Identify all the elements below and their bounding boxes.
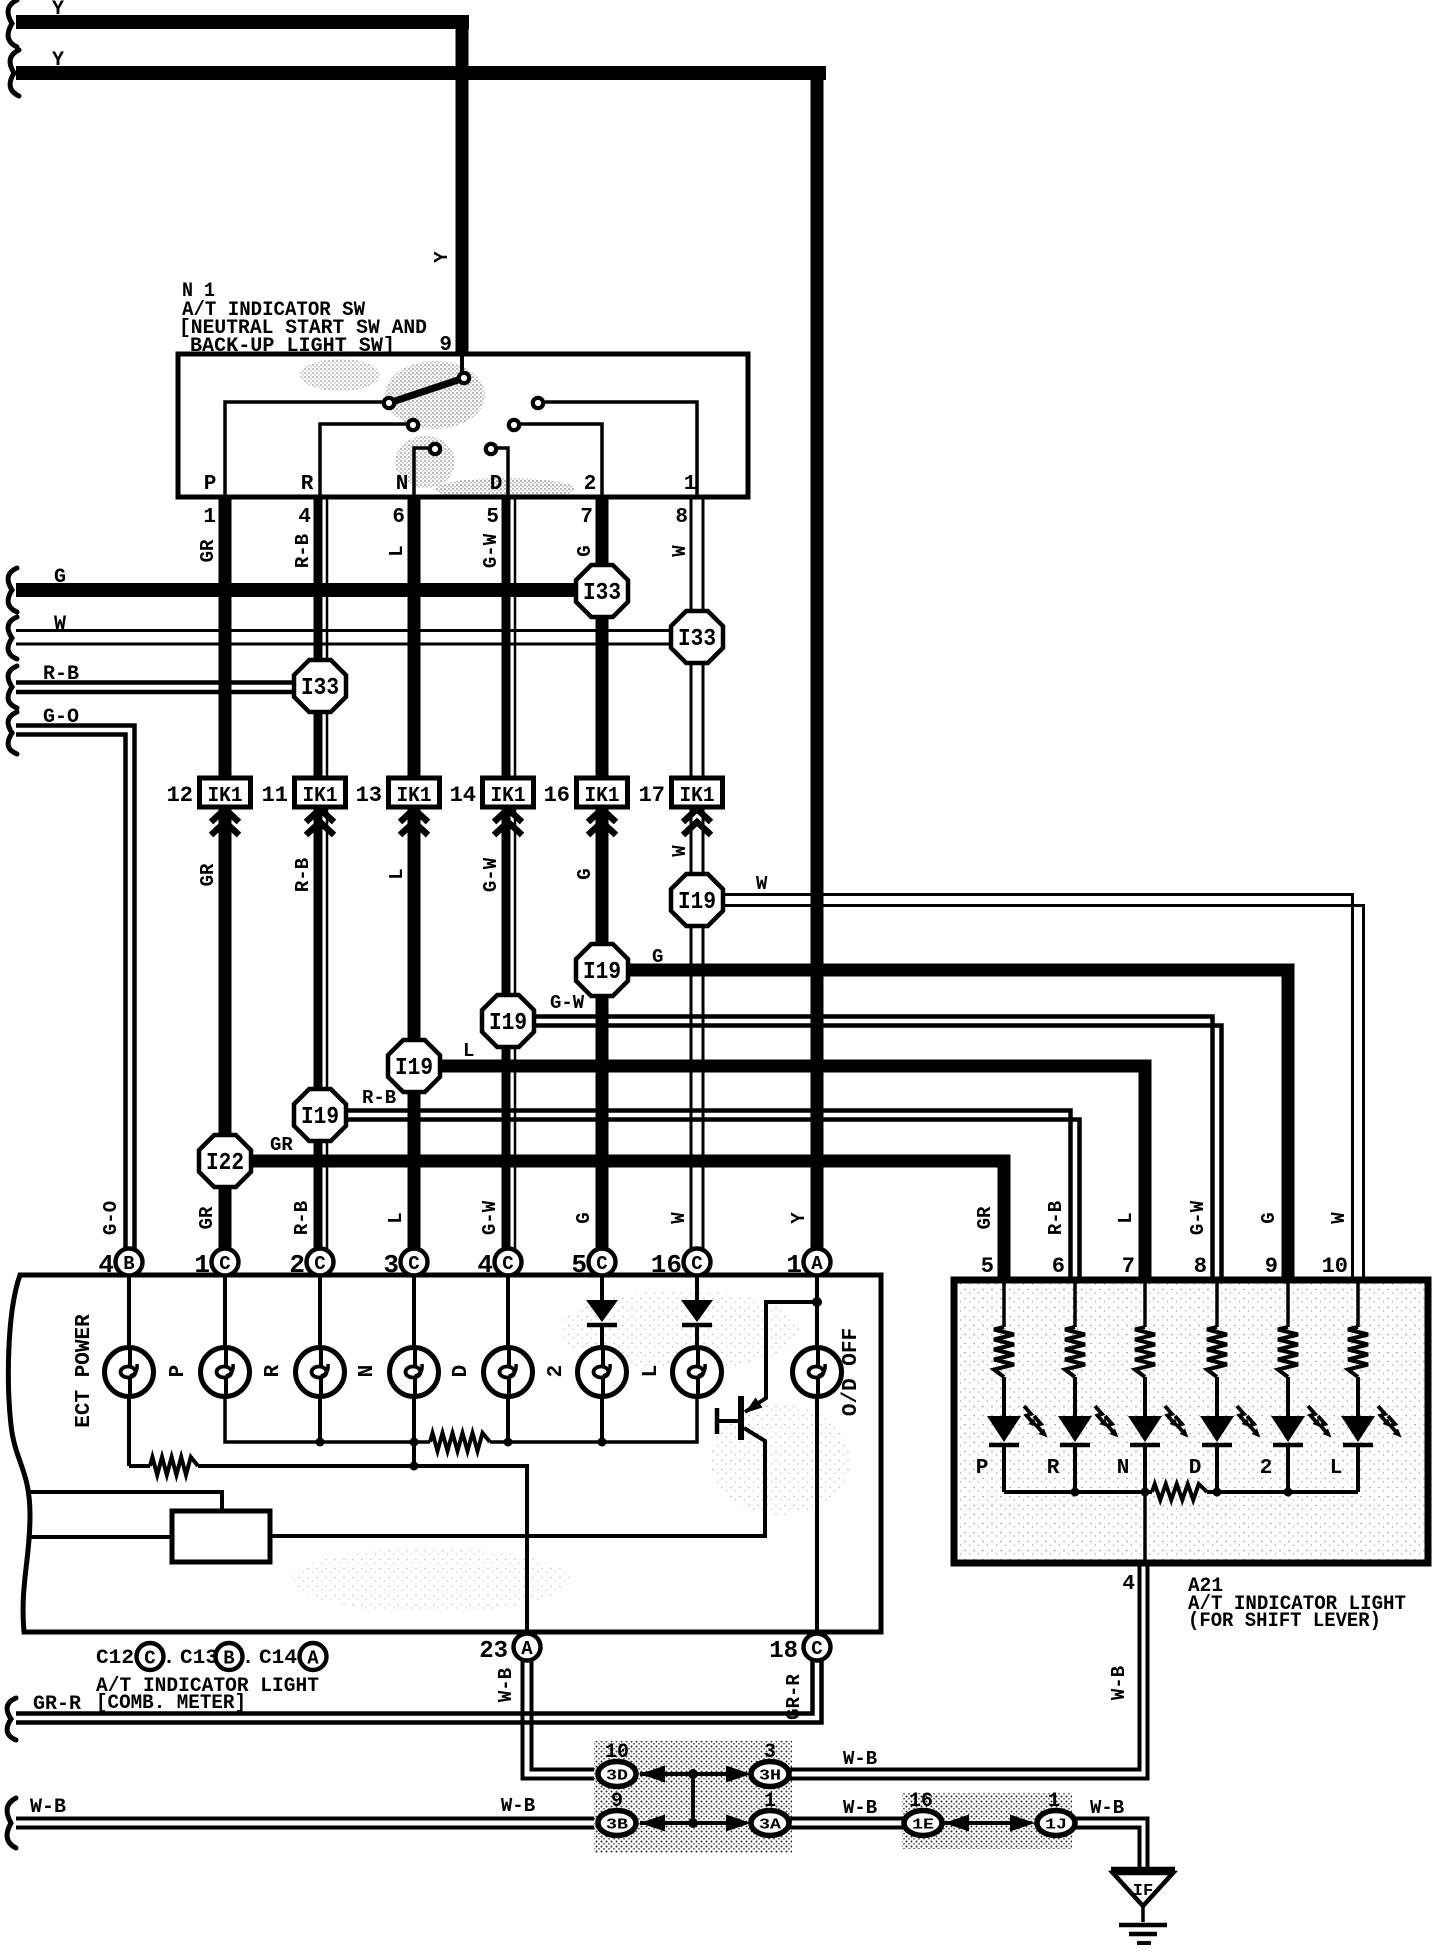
svg-text:ECT POWER: ECT POWER — [73, 1314, 96, 1428]
resistor — [1207, 1327, 1227, 1377]
A21 internal wire col 4 — [1215, 1280, 1219, 1327]
smudge noise — [300, 359, 575, 500]
svg-text:B: B — [123, 1253, 134, 1275]
svg-text:16: 16 — [651, 1250, 682, 1280]
svg-text:I33: I33 — [583, 580, 621, 607]
svg-text:11: 11 — [262, 783, 288, 808]
connector 3H — [751, 1762, 789, 1787]
svg-text:G: G — [54, 566, 66, 589]
lamp N — [390, 1348, 439, 1397]
wire G-O bus inner line — [16, 735, 126, 1252]
svg-text:10: 10 — [605, 1741, 629, 1764]
wire G-O bus outer line — [16, 726, 135, 1252]
gauge block — [172, 1511, 270, 1562]
lamp O/D OFF — [793, 1348, 842, 1397]
svg-text:L: L — [1115, 1212, 1137, 1223]
svg-text:IK1: IK1 — [491, 785, 526, 808]
connector IK1 pin 11 — [295, 778, 346, 808]
svg-text:W-B: W-B — [30, 1796, 66, 1819]
svg-text:W-B: W-B — [495, 1668, 517, 1702]
svg-text:L: L — [1330, 1457, 1343, 1480]
svg-text:R: R — [262, 1364, 285, 1377]
A21 indicator body — [954, 1280, 1428, 1563]
A21 wire to pin 4 — [1143, 1492, 1147, 1563]
switch contact lead R — [320, 424, 406, 497]
switch contact pivot — [459, 373, 469, 383]
svg-text:C14: C14 — [259, 1647, 297, 1670]
wire 3B-3A — [640, 1821, 727, 1825]
svg-text:3H: 3H — [759, 1768, 781, 1785]
svg-text:R-B: R-B — [362, 1087, 396, 1109]
svg-text:N: N — [356, 1365, 379, 1378]
wire W column right line — [702, 497, 705, 1251]
wire 1E-1J — [944, 1821, 1011, 1825]
junction — [688, 1818, 698, 1828]
svg-text:L: L — [385, 1212, 407, 1223]
svg-text:16: 16 — [909, 1790, 933, 1813]
ground IF — [1111, 1869, 1175, 1943]
comb meter pin 1(A) — [804, 1249, 831, 1276]
comb meter pin 1(C) — [212, 1249, 239, 1276]
lamp L — [673, 1348, 722, 1397]
svg-text:5: 5 — [981, 1254, 994, 1279]
wire W-B 3H to A21 inner — [789, 1563, 1140, 1770]
svg-text:N: N — [396, 473, 409, 496]
svg-text:13: 13 — [356, 783, 382, 808]
diode — [681, 1300, 713, 1325]
wire R-B column left line — [314, 497, 323, 1251]
svg-text:9: 9 — [439, 334, 452, 357]
svg-text:I19: I19 — [678, 889, 716, 916]
switch contact lead P — [225, 402, 382, 497]
wire L column (N) — [408, 497, 421, 1251]
A21 internal wire col 1 — [1002, 1280, 1006, 1327]
svg-text:R-B: R-B — [43, 663, 79, 686]
wire pin to diode — [600, 1275, 604, 1300]
svg-text:L: L — [386, 545, 408, 556]
junction — [410, 1438, 419, 1447]
connector I33 on W — [671, 611, 723, 663]
wire G run to A21 pin 9 — [628, 970, 1288, 1283]
svg-text:G-W: G-W — [480, 533, 502, 568]
wire pin to lamp — [506, 1275, 510, 1348]
connector I33 on G — [576, 565, 628, 617]
svg-text:W: W — [669, 545, 691, 557]
junction — [504, 1438, 513, 1447]
svg-text:C: C — [691, 1253, 702, 1275]
svg-text:W: W — [54, 613, 66, 636]
transistor Q (O/D) — [717, 1302, 817, 1440]
svg-text:O/D OFF: O/D OFF — [840, 1328, 863, 1416]
svg-text:5: 5 — [571, 1250, 587, 1280]
svg-text:IK1: IK1 — [397, 785, 432, 808]
svg-text:1: 1 — [203, 506, 216, 529]
wire to gauge block left — [28, 1535, 172, 1539]
junction — [410, 1462, 419, 1471]
junction block J/B — [594, 1741, 792, 1853]
wire O/D lamp to pin 18(C) — [815, 1396, 819, 1634]
connector code A — [300, 1643, 327, 1670]
svg-text:C12: C12 — [96, 1647, 134, 1670]
lamp bus left — [225, 1396, 430, 1442]
continuation brace G-O bus — [8, 712, 17, 754]
svg-text:G-W: G-W — [480, 857, 502, 892]
A21 cathode bus left — [1004, 1490, 1152, 1494]
connector I19 on R-B — [294, 1089, 346, 1141]
comb meter pin 23(A) — [514, 1634, 541, 1661]
resistor — [1065, 1327, 1085, 1377]
wire W bus upper line — [16, 629, 697, 632]
svg-text:I22: I22 — [206, 1150, 244, 1177]
svg-text:G-W: G-W — [550, 992, 585, 1014]
svg-text:G-W: G-W — [1187, 1200, 1209, 1235]
wire G column (2) — [596, 497, 609, 1251]
junction — [1213, 1488, 1222, 1497]
svg-text:G: G — [574, 868, 596, 879]
svg-text:C: C — [314, 1253, 325, 1275]
svg-text:I33: I33 — [301, 675, 339, 702]
A21 internal wire col 6 — [1356, 1280, 1360, 1327]
LED D — [1200, 1406, 1261, 1445]
svg-text:GR: GR — [197, 539, 219, 562]
svg-text:Y: Y — [788, 1212, 810, 1224]
A21 internal wire col 5 — [1286, 1280, 1290, 1327]
continuation brace Y bus 1 — [8, 0, 17, 47]
connector I22 on GR — [199, 1135, 251, 1187]
svg-text:C13: C13 — [180, 1647, 218, 1670]
junction — [316, 1438, 325, 1447]
svg-text:W-B: W-B — [843, 1748, 877, 1770]
svg-text:P: P — [204, 473, 217, 496]
resistor — [150, 1457, 198, 1475]
svg-text:GR-R: GR-R — [33, 1693, 81, 1716]
wire W-B 23A outer — [523, 1658, 599, 1779]
wire W run inner line — [723, 895, 1353, 1284]
connector IK1 pin 13 — [389, 778, 440, 808]
lamp R — [296, 1348, 345, 1397]
wire diode to lamp — [600, 1327, 604, 1348]
svg-text:R: R — [1047, 1457, 1060, 1480]
svg-text:6: 6 — [392, 506, 405, 529]
wire 1J-ground inner — [1075, 1828, 1140, 1871]
wire W bus lower line — [16, 643, 697, 646]
svg-text:G-O: G-O — [100, 1201, 122, 1235]
svg-text:A: A — [521, 1638, 533, 1660]
svg-text:16: 16 — [544, 783, 570, 808]
svg-text:3B: 3B — [606, 1817, 628, 1834]
resistor — [1348, 1327, 1368, 1377]
wire pin to lamp — [127, 1275, 131, 1348]
svg-text:GR: GR — [974, 1206, 996, 1229]
svg-text:2: 2 — [584, 473, 597, 496]
wire to pin 23(A) — [198, 1466, 527, 1634]
connector IK1 pin 16 — [577, 778, 628, 808]
svg-text:C: C — [144, 1648, 155, 1670]
svg-text:1: 1 — [684, 473, 697, 496]
wire G-W column right line — [514, 497, 517, 1251]
comb meter body — [8, 1275, 881, 1632]
svg-text:W: W — [669, 845, 691, 857]
wire Y drop to comb meter pin 1(A) — [811, 66, 824, 1251]
wire Y drop to switch pin 9 — [456, 15, 469, 357]
svg-text:A: A — [307, 1648, 319, 1670]
svg-text:W-B: W-B — [1090, 1797, 1124, 1819]
svg-text:Y: Y — [52, 0, 64, 21]
svg-text:14: 14 — [450, 783, 476, 808]
switch contact lead 1(L) — [545, 402, 697, 497]
svg-text:G: G — [652, 946, 663, 968]
svg-text:4: 4 — [477, 1250, 493, 1280]
svg-text:1: 1 — [194, 1250, 210, 1280]
svg-text:9: 9 — [1265, 1254, 1278, 1279]
svg-text:I19: I19 — [489, 1010, 527, 1037]
connector arrows under IK1-17 — [683, 809, 711, 822]
svg-text:P: P — [976, 1457, 989, 1480]
wire 3A-1E upper — [789, 1817, 904, 1821]
wire R-B run inner line — [346, 1111, 1071, 1284]
wire 3D-3H — [640, 1772, 727, 1776]
svg-text:L: L — [386, 868, 408, 879]
LED N — [1128, 1406, 1189, 1445]
svg-text:9: 9 — [611, 1790, 623, 1813]
wire pin to diode — [695, 1275, 699, 1300]
svg-text:GR: GR — [196, 1206, 218, 1229]
svg-text:7: 7 — [1122, 1254, 1135, 1279]
svg-text:4: 4 — [98, 1250, 114, 1280]
A21 internal wire col 2 — [1073, 1280, 1077, 1327]
svg-text:4: 4 — [298, 506, 311, 529]
svg-text:D: D — [450, 1365, 473, 1378]
wire Y bus 1 (horizontal) — [16, 15, 469, 29]
svg-text:G: G — [574, 545, 596, 556]
svg-text:7: 7 — [580, 506, 593, 529]
svg-text:C: C — [596, 1253, 607, 1275]
comb meter pin 5(C) — [589, 1249, 616, 1276]
svg-text:W-B: W-B — [501, 1795, 535, 1817]
svg-text:GR: GR — [270, 1134, 293, 1156]
LED P — [987, 1406, 1048, 1445]
wire pin to lamp — [412, 1275, 416, 1348]
svg-text:G: G — [573, 1212, 595, 1223]
junction — [688, 1769, 698, 1779]
connector I19 on W — [671, 874, 723, 926]
connector arrows under IK1-14 — [494, 809, 522, 822]
resistor horizontal — [1152, 1484, 1207, 1500]
svg-text:10: 10 — [1322, 1254, 1348, 1279]
connector 3A — [751, 1811, 789, 1836]
connector I33 on R-B — [294, 660, 346, 712]
switch contact P — [384, 398, 394, 408]
wire W run outer line — [723, 906, 1364, 1284]
svg-text:C: C — [408, 1253, 419, 1275]
connector IK1 pin 14 — [483, 778, 534, 808]
svg-text:R-B: R-B — [292, 858, 314, 892]
svg-text:6: 6 — [1052, 1254, 1065, 1279]
svg-text:3A: 3A — [759, 1817, 781, 1834]
wire G-W column left line — [502, 497, 511, 1251]
svg-text:8: 8 — [1194, 1254, 1207, 1279]
comb meter pin 18(C) — [804, 1634, 831, 1661]
svg-text:L: L — [640, 1365, 663, 1378]
wire L run to A21 pin 7 — [440, 1066, 1145, 1283]
wire pin to lamp — [318, 1275, 322, 1348]
junction — [1141, 1488, 1150, 1497]
svg-text:W-B: W-B — [843, 1797, 877, 1819]
svg-text:12: 12 — [167, 783, 193, 808]
svg-text:IK1: IK1 — [208, 785, 243, 808]
svg-text:3D: 3D — [606, 1768, 628, 1785]
comb meter pin 4(B) — [116, 1249, 143, 1276]
wire W column left line — [690, 497, 693, 1251]
wire 1J-ground outer — [1075, 1819, 1148, 1871]
wire transistor collector — [270, 1428, 765, 1536]
LED 2 — [1271, 1406, 1332, 1445]
svg-text:5: 5 — [486, 506, 499, 529]
wire W-B bus upper — [16, 1817, 598, 1821]
switch arm — [392, 378, 464, 402]
svg-text:3: 3 — [764, 1741, 776, 1764]
svg-text:G-O: G-O — [43, 706, 79, 729]
svg-text:8: 8 — [675, 506, 688, 529]
LED R — [1058, 1406, 1119, 1445]
svg-text:R-B: R-B — [1045, 1201, 1067, 1235]
A21 cathode bus right — [1207, 1490, 1358, 1494]
lamp ECT POWER — [105, 1348, 154, 1397]
svg-text:23: 23 — [479, 1638, 508, 1665]
wire pin to lamp — [815, 1275, 819, 1348]
wire switch common from pin 9 — [460, 354, 464, 378]
resistor — [430, 1433, 490, 1451]
svg-text:B: B — [223, 1648, 234, 1670]
svg-text:N: N — [1117, 1457, 1130, 1480]
svg-text:GR: GR — [197, 863, 219, 886]
connector arrows under IK1-11 — [306, 809, 334, 822]
svg-text:I33: I33 — [678, 626, 716, 653]
wire junction vertical — [691, 1774, 695, 1823]
svg-text:1: 1 — [1048, 1790, 1060, 1813]
svg-text:C: C — [811, 1638, 822, 1660]
comb meter pin 4(C) — [495, 1249, 522, 1276]
svg-text:C: C — [219, 1253, 230, 1275]
switch contact lead N — [414, 448, 428, 497]
wire W-B bus lower — [16, 1826, 598, 1830]
wire to gauge block top — [26, 1492, 222, 1511]
wire pin to lamp — [223, 1275, 227, 1348]
svg-text:I19: I19 — [301, 1104, 339, 1131]
comb meter pin 2(C) — [307, 1249, 334, 1276]
junction at O/D wire — [812, 1297, 822, 1307]
svg-text:.: . — [242, 1647, 254, 1670]
svg-text:2: 2 — [289, 1250, 305, 1280]
wire diode to lamp — [695, 1327, 699, 1348]
connector arrows under IK1-16 — [588, 809, 616, 822]
LED L — [1341, 1406, 1402, 1445]
svg-text:D: D — [1189, 1457, 1202, 1480]
connector I19 on L — [388, 1040, 440, 1092]
svg-text:W-B: W-B — [1108, 1666, 1130, 1700]
wire ECT lamp down — [127, 1396, 131, 1466]
continuation brace R-B bus — [8, 666, 17, 708]
connector I19 on G-W — [482, 995, 534, 1047]
switch contact lead 2 — [521, 424, 602, 497]
junction — [1071, 1488, 1080, 1497]
svg-text:IK1: IK1 — [303, 785, 338, 808]
svg-text:BACK-UP LIGHT SW]: BACK-UP LIGHT SW] — [190, 335, 395, 358]
connector 3D — [598, 1762, 636, 1787]
connector arrows under IK1-13 — [400, 809, 428, 822]
svg-text:I19: I19 — [583, 959, 621, 986]
wire GR run to A21 pin 5 — [251, 1161, 1004, 1283]
comb meter pin 3(C) — [401, 1249, 428, 1276]
svg-text:D: D — [490, 473, 503, 496]
svg-text:I19: I19 — [395, 1055, 433, 1082]
svg-text:W: W — [1328, 1212, 1350, 1224]
svg-text:1E: 1E — [912, 1817, 934, 1834]
connector code C — [137, 1643, 164, 1670]
wire W-B 23A inner — [532, 1658, 599, 1770]
wire G bus — [16, 583, 602, 597]
wire R-B run outer line — [346, 1120, 1080, 1284]
svg-text:R-B: R-B — [292, 534, 314, 568]
continuation brace W bus — [8, 617, 17, 659]
svg-text:IK1: IK1 — [585, 785, 620, 808]
svg-text:C: C — [502, 1253, 513, 1275]
connector 1E — [904, 1811, 942, 1836]
wire W-B 3H to A21 outer — [789, 1563, 1148, 1779]
svg-text:2: 2 — [545, 1365, 568, 1378]
connector 3B — [598, 1811, 636, 1836]
svg-text:.: . — [163, 1647, 175, 1670]
svg-text:W: W — [668, 1212, 690, 1224]
svg-text:17: 17 — [639, 783, 665, 808]
resistor — [994, 1327, 1014, 1377]
continuation brace Y bus 2 — [10, 50, 19, 96]
junction — [1284, 1488, 1293, 1497]
svg-text:2: 2 — [1260, 1457, 1273, 1480]
switch contact N — [430, 444, 440, 454]
svg-text:1: 1 — [764, 1790, 776, 1813]
svg-text:(FOR SHIFT LEVER): (FOR SHIFT LEVER) — [1188, 1610, 1381, 1633]
svg-text:A: A — [811, 1253, 823, 1275]
wire GR column (P) — [219, 497, 232, 1251]
connector IK1 pin 12 — [200, 778, 251, 808]
svg-text:1: 1 — [786, 1250, 802, 1280]
svg-text:W: W — [756, 873, 768, 895]
wire bus to ECT line — [412, 1442, 416, 1466]
switch contact 2 — [509, 420, 519, 430]
connector code B — [216, 1643, 243, 1670]
switch contact L — [533, 398, 543, 408]
wire R-B column right line — [326, 497, 329, 1251]
wire G-W run inner line — [534, 1017, 1213, 1284]
diode — [586, 1300, 618, 1325]
speckle — [290, 1290, 850, 1612]
svg-text:IF: IF — [1133, 1882, 1153, 1901]
svg-text:G-W: G-W — [479, 1200, 501, 1235]
lamp bus right — [490, 1396, 697, 1442]
wire R-B bus lower line — [16, 690, 320, 695]
connector 1J — [1037, 1811, 1075, 1836]
switch contact lead D — [498, 448, 508, 497]
connector arrows under IK1-12 — [211, 809, 239, 822]
wire G-W run outer line — [534, 1026, 1222, 1284]
svg-text:IK1: IK1 — [680, 785, 715, 808]
continuation brace W-B — [7, 1798, 16, 1848]
wire Y bus 2 (horizontal) — [16, 66, 826, 80]
svg-text:18: 18 — [769, 1638, 798, 1665]
svg-text:Y: Y — [52, 49, 64, 72]
wire GR-R outer — [16, 1658, 822, 1723]
